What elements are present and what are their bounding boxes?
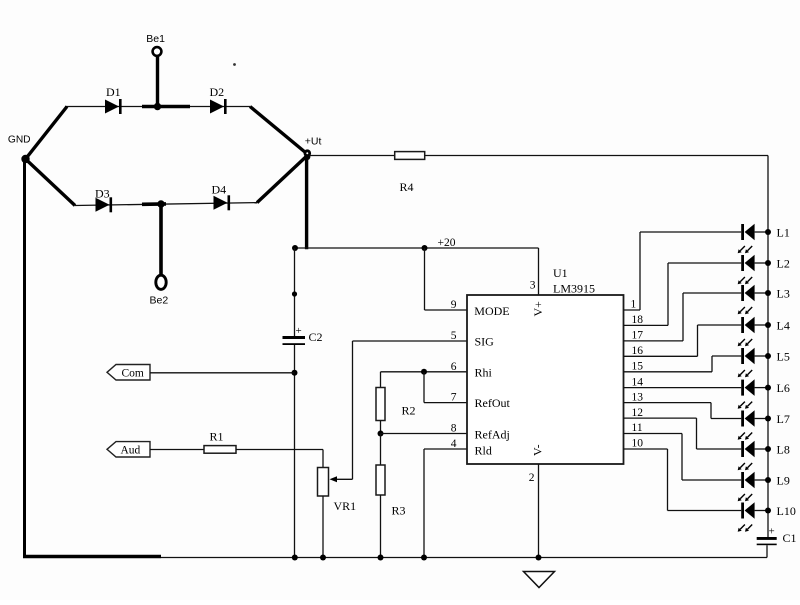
wire GND left vertical rail xyxy=(23,159,26,556)
ground symbol xyxy=(524,572,555,588)
svg-text:10: 10 xyxy=(632,438,644,450)
LED L8 xyxy=(738,441,755,471)
wire LED5 pin 15 xyxy=(624,356,742,372)
wire LED8 anode to rail xyxy=(755,448,768,450)
resistor R2 xyxy=(376,388,416,421)
pin number 14 xyxy=(632,376,644,388)
svg-text:7: 7 xyxy=(451,392,457,404)
label L4 xyxy=(777,318,790,332)
pin number 18 xyxy=(632,314,644,326)
wire LED10 anode to rail xyxy=(755,510,768,512)
LED L6 xyxy=(738,379,755,409)
svg-text:LM3915: LM3915 xyxy=(553,281,595,295)
wire +Ut to R4 xyxy=(310,155,395,157)
node RefAdj junction xyxy=(378,431,384,437)
LED L5 xyxy=(738,348,755,378)
label L6 xyxy=(777,381,790,395)
pin number 10 xyxy=(632,438,644,450)
wire Be1 to top bridge junction xyxy=(156,57,159,107)
svg-text:8: 8 xyxy=(451,423,457,435)
capacitor C2 xyxy=(283,325,323,345)
pin label RefOut xyxy=(475,396,511,410)
label L10 xyxy=(777,504,796,518)
svg-text:GND: GND xyxy=(8,135,31,146)
svg-text:RefOut: RefOut xyxy=(475,396,511,410)
potentiometer VR1 xyxy=(318,468,357,514)
svg-text:+: + xyxy=(296,325,302,337)
wire LED4 pin 16 xyxy=(624,325,742,356)
LED L4 xyxy=(738,317,755,347)
resistor R1 xyxy=(204,429,236,453)
svg-text:+20: +20 xyxy=(438,237,456,249)
label L2 xyxy=(777,256,790,270)
wire +Ut vertical drop xyxy=(305,156,308,250)
label L3 xyxy=(777,286,790,300)
pin label Rhi xyxy=(475,365,493,379)
node top bridge junction xyxy=(154,103,161,110)
svg-text:R1: R1 xyxy=(210,429,224,443)
node L7 rail junction xyxy=(765,416,771,422)
pin number 3 xyxy=(530,280,536,292)
pin number 6 xyxy=(451,361,457,373)
svg-text:9: 9 xyxy=(451,299,457,311)
svg-text:11: 11 xyxy=(632,422,643,434)
svg-text:C2: C2 xyxy=(309,330,323,344)
svg-text:15: 15 xyxy=(632,361,644,373)
node L6 rail junction xyxy=(765,385,771,391)
svg-text:MODE: MODE xyxy=(474,304,509,318)
svg-text:Be2: Be2 xyxy=(150,295,169,307)
pin number 16 xyxy=(632,345,644,357)
svg-text:3: 3 xyxy=(530,280,536,292)
svg-text:6: 6 xyxy=(451,361,457,373)
wire LED3 pin 17 xyxy=(624,293,742,341)
wire MODE riser xyxy=(425,248,468,310)
svg-text:L8: L8 xyxy=(777,442,790,456)
wire LED5 anode to rail xyxy=(755,355,768,357)
node pin2 rail junction xyxy=(536,555,542,561)
pin number 9 xyxy=(451,299,457,311)
diode D3 xyxy=(95,186,112,212)
wire diagonal top bridge to +Ut xyxy=(250,107,307,155)
wire LED9 anode to rail xyxy=(755,479,768,481)
wire diagonal bottom bridge to +Ut xyxy=(257,156,307,203)
pin number 12 xyxy=(632,407,644,419)
wire LED8 pin 12 xyxy=(624,418,742,449)
wire diagonal GND to top bridge xyxy=(26,107,68,160)
svg-text:L7: L7 xyxy=(777,412,790,426)
label L5 xyxy=(777,349,790,363)
pin label SIG xyxy=(475,335,495,349)
node L5 rail junction xyxy=(765,353,771,359)
pin number 11 xyxy=(632,422,643,434)
LED L1 xyxy=(738,224,755,254)
pin label RefAdj xyxy=(475,428,510,442)
wire C1 bottom to rail xyxy=(766,545,768,557)
connector Com xyxy=(107,365,150,381)
wire LED2 pin 18 xyxy=(624,263,742,325)
wire Rhi pin 6 xyxy=(381,372,468,388)
node L2 rail junction xyxy=(765,260,771,266)
svg-text:1: 1 xyxy=(631,299,637,311)
resistor R3 xyxy=(376,465,406,518)
pin number 7 xyxy=(451,392,457,404)
svg-text:L3: L3 xyxy=(777,286,790,300)
wire VR1 bottom to rail xyxy=(322,496,324,558)
wire LED2 anode to rail xyxy=(755,262,768,264)
node Rhi RefOut tie xyxy=(421,369,427,375)
node L3 rail junction xyxy=(765,290,771,296)
node L4 rail junction xyxy=(765,322,771,328)
pin number 4 xyxy=(451,438,457,450)
svg-text:2: 2 xyxy=(529,472,535,484)
LED L2 xyxy=(738,255,755,285)
svg-text:RefAdj: RefAdj xyxy=(475,428,510,442)
svg-text:D4: D4 xyxy=(212,182,227,196)
svg-text:R3: R3 xyxy=(392,504,406,518)
wire RefAdj to R3 top xyxy=(380,434,382,466)
svg-text:VR1: VR1 xyxy=(334,499,357,513)
svg-text:+: + xyxy=(769,526,775,538)
svg-text:L1: L1 xyxy=(777,225,790,239)
wire pin2 V- to rail xyxy=(538,464,540,558)
node +20 left junction xyxy=(292,245,298,251)
wire Rld pin 4 to rail xyxy=(424,449,467,558)
stray ink dot xyxy=(233,63,236,66)
node Rld rail junction xyxy=(421,555,427,561)
node bottom bridge junction xyxy=(157,200,164,207)
node R3 bottom rail junction xyxy=(378,555,384,561)
wire RefOut pin 7 tie xyxy=(424,372,467,403)
wire LED7 anode to rail xyxy=(755,418,768,420)
node L9 rail junction xyxy=(765,477,771,483)
diode D2 xyxy=(210,85,227,114)
wire LED7 pin 13 xyxy=(624,403,742,419)
wire LED9 pin 11 xyxy=(624,434,742,481)
label +20 xyxy=(438,237,456,249)
pin number 2 xyxy=(529,472,535,484)
node C2 branch to bottom rail xyxy=(292,555,298,561)
wire bottom rail xyxy=(161,557,767,559)
svg-text:L4: L4 xyxy=(777,318,790,332)
wire +20 supply line xyxy=(295,247,539,249)
wire RefAdj pin 8 xyxy=(381,433,468,435)
wire LED1 pin 1 xyxy=(624,232,742,310)
pin label V+ xyxy=(531,301,545,317)
pin number 13 xyxy=(632,391,644,403)
wire LED4 anode to rail xyxy=(755,324,768,326)
svg-text:C1: C1 xyxy=(783,531,797,545)
label L9 xyxy=(777,473,790,487)
wire C2 branch vertical xyxy=(294,248,296,558)
svg-text:D3: D3 xyxy=(95,186,110,200)
LED L9 xyxy=(738,472,755,502)
node L10 rail junction xyxy=(765,508,771,514)
LED L3 xyxy=(738,285,755,315)
wire R1 to VR1 top xyxy=(236,450,323,468)
label L7 xyxy=(777,412,790,426)
wire bottom bridge thick segment at junction xyxy=(142,202,166,206)
node VR1 bottom rail junction xyxy=(320,555,326,561)
LED L10 xyxy=(738,502,755,532)
svg-text:Com: Com xyxy=(122,368,144,380)
svg-text:D1: D1 xyxy=(106,85,121,99)
svg-text:U1: U1 xyxy=(553,266,568,280)
svg-text:Rld: Rld xyxy=(475,443,492,457)
svg-text:17: 17 xyxy=(632,330,644,342)
wire LED6 pin 14 xyxy=(624,387,742,389)
svg-text:V-: V- xyxy=(531,444,545,456)
wire R2 bottom to RefAdj xyxy=(380,421,382,434)
svg-text:Rhi: Rhi xyxy=(475,365,493,379)
wire R4 to LED anode rail xyxy=(425,156,768,538)
wiper arrow of VR1 xyxy=(330,476,353,482)
svg-text:L2: L2 xyxy=(777,256,790,270)
svg-text:D2: D2 xyxy=(210,85,225,99)
pin number 8 xyxy=(451,423,457,435)
svg-text:+Ut: +Ut xyxy=(305,135,322,147)
wire LED1 anode to rail xyxy=(755,231,768,233)
wire pin3 V+ lead xyxy=(538,248,540,295)
resistor R4 xyxy=(395,152,425,194)
svg-text:Be1: Be1 xyxy=(146,33,165,45)
pin label Rld xyxy=(475,443,492,457)
node L8 rail junction xyxy=(765,446,771,452)
wire top bridge thick segment at junction xyxy=(142,105,190,109)
wire Aud to R1 xyxy=(150,449,204,451)
svg-text:R2: R2 xyxy=(402,403,416,417)
wire wiper to SIG pin 5 xyxy=(353,341,468,479)
capacitor C1 xyxy=(757,526,797,546)
svg-text:16: 16 xyxy=(632,345,644,357)
pin number 15 xyxy=(632,361,644,373)
diode D4 xyxy=(212,182,231,210)
svg-text:13: 13 xyxy=(632,391,644,403)
pin label MODE xyxy=(474,304,509,318)
svg-text:L10: L10 xyxy=(777,504,796,518)
node Com junction xyxy=(292,370,298,376)
wire top bridge horizontal xyxy=(65,106,250,108)
svg-text:4: 4 xyxy=(451,438,457,450)
wire LED3 anode to rail xyxy=(755,292,768,294)
node MODE riser junction xyxy=(422,245,428,251)
svg-text:SIG: SIG xyxy=(475,335,495,349)
wire Be2 to bottom bridge junction xyxy=(159,204,163,276)
node on C2 branch xyxy=(292,291,297,296)
pin number 17 xyxy=(632,330,644,342)
svg-text:L6: L6 xyxy=(777,381,790,395)
svg-text:18: 18 xyxy=(632,314,644,326)
svg-text:R4: R4 xyxy=(400,180,414,194)
pin label V- xyxy=(531,444,545,456)
terminal Be2 xyxy=(150,275,169,306)
wire diagonal GND to bottom bridge xyxy=(26,159,76,206)
diode D1 xyxy=(105,85,122,114)
wire R3 bottom to rail xyxy=(380,495,382,558)
svg-text:12: 12 xyxy=(632,407,644,419)
wire Com to C2 branch xyxy=(150,372,295,374)
svg-text:Aud: Aud xyxy=(121,445,141,457)
terminal Be1 xyxy=(146,33,165,56)
wire bottom rail thick segment xyxy=(23,555,161,558)
connector Aud xyxy=(107,442,150,457)
svg-text:5: 5 xyxy=(451,330,457,342)
label L1 xyxy=(777,225,790,239)
label L8 xyxy=(777,442,790,456)
svg-text:L9: L9 xyxy=(777,473,790,487)
op-amp U1 LM3915 body xyxy=(467,266,624,464)
node +Ut xyxy=(304,135,322,160)
wire LED10 pin 10 xyxy=(624,449,742,511)
wire bottom bridge horizontal xyxy=(75,203,257,206)
wire LED6 anode to rail xyxy=(755,387,768,389)
LED L7 xyxy=(738,410,755,440)
svg-text:V+: V+ xyxy=(531,301,545,317)
svg-text:L5: L5 xyxy=(777,349,790,363)
svg-text:14: 14 xyxy=(632,376,644,388)
node GND xyxy=(8,135,31,164)
pin number 5 xyxy=(451,330,457,342)
node L1 rail junction xyxy=(765,229,771,235)
pin number 1 xyxy=(631,299,637,311)
